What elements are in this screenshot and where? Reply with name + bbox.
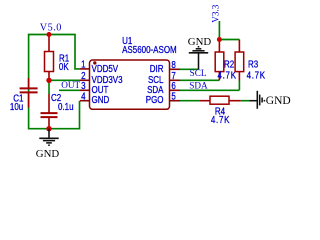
ground symbol DIR (inverted) [189,47,208,70]
resistor R3 [235,40,244,81]
wire SCL to R2 [180,79,219,81]
junction dot R1/C2/pin2 [46,78,51,83]
capacitor C1 [20,78,38,108]
pin stub 2 [80,79,90,81]
svg-text:VDD5V: VDD5V [92,63,119,74]
svg-text:DIR: DIR [150,63,164,74]
svg-text:OUT: OUT [61,80,80,90]
wire OUT net [59,89,80,91]
pin stub 4 [80,100,90,102]
svg-text:AS5600-ASOM: AS5600-ASOM [122,44,177,55]
svg-text:4: 4 [81,90,85,101]
wire V3.3 to R3 top [219,39,239,41]
svg-text:0K: 0K [59,61,70,72]
pin stub 8 [170,68,181,70]
ground symbol right (sideways) [250,91,265,109]
junction dot top rail [47,32,52,37]
svg-text:R2: R2 [224,58,234,69]
IC U1 box [90,60,170,109]
wire V3.3 drop [218,21,220,40]
capacitor C2 [41,94,58,129]
wire dot2 down to C2 [48,80,50,94]
pin stub 5 [170,100,181,102]
pin stub 1 [80,68,90,70]
pin stub 6 [170,89,181,91]
svg-text:GND: GND [92,94,110,105]
svg-text:10u: 10u [10,101,23,112]
resistor R2 [215,40,224,81]
svg-text:V3.3: V3.3 [210,4,220,23]
svg-text:GND: GND [266,95,291,107]
wire SDA to R3 [180,89,239,91]
wire bottom rail GND [29,101,80,129]
wire PGO to R4 [180,100,200,102]
svg-text:8: 8 [171,59,175,70]
resistor R1 [45,35,54,81]
svg-text:GND: GND [188,36,212,48]
svg-text:SCL: SCL [190,68,207,78]
svg-text:4.7K: 4.7K [218,69,237,80]
svg-text:V5.0: V5.0 [40,23,62,34]
pin stub 3 [80,89,90,91]
junction dot V3.3 [217,37,222,42]
pin stub 7 [170,79,181,81]
wire top rail V5.0 to pin1 riser [29,35,80,108]
ground symbol bottom [39,129,58,146]
svg-text:4.7K: 4.7K [247,69,266,80]
svg-text:R3: R3 [248,58,258,69]
svg-text:1: 1 [81,59,85,70]
svg-text:5: 5 [171,90,175,101]
svg-text:SDA: SDA [189,80,208,90]
wire R4 to right ground [241,100,250,102]
wire DIR to ground [180,68,199,70]
wire R3 bottom to SDA [238,81,240,91]
svg-text:PGO: PGO [146,94,164,105]
resistor R4 [200,96,241,104]
junction dot bottom rail [46,126,51,131]
wire pin2 VDD3V3 [49,79,80,81]
pin1 indicator dot [93,61,96,64]
svg-text:4.7K: 4.7K [211,114,230,125]
svg-text:0.1u: 0.1u [58,101,74,112]
svg-text:GND: GND [36,148,60,160]
